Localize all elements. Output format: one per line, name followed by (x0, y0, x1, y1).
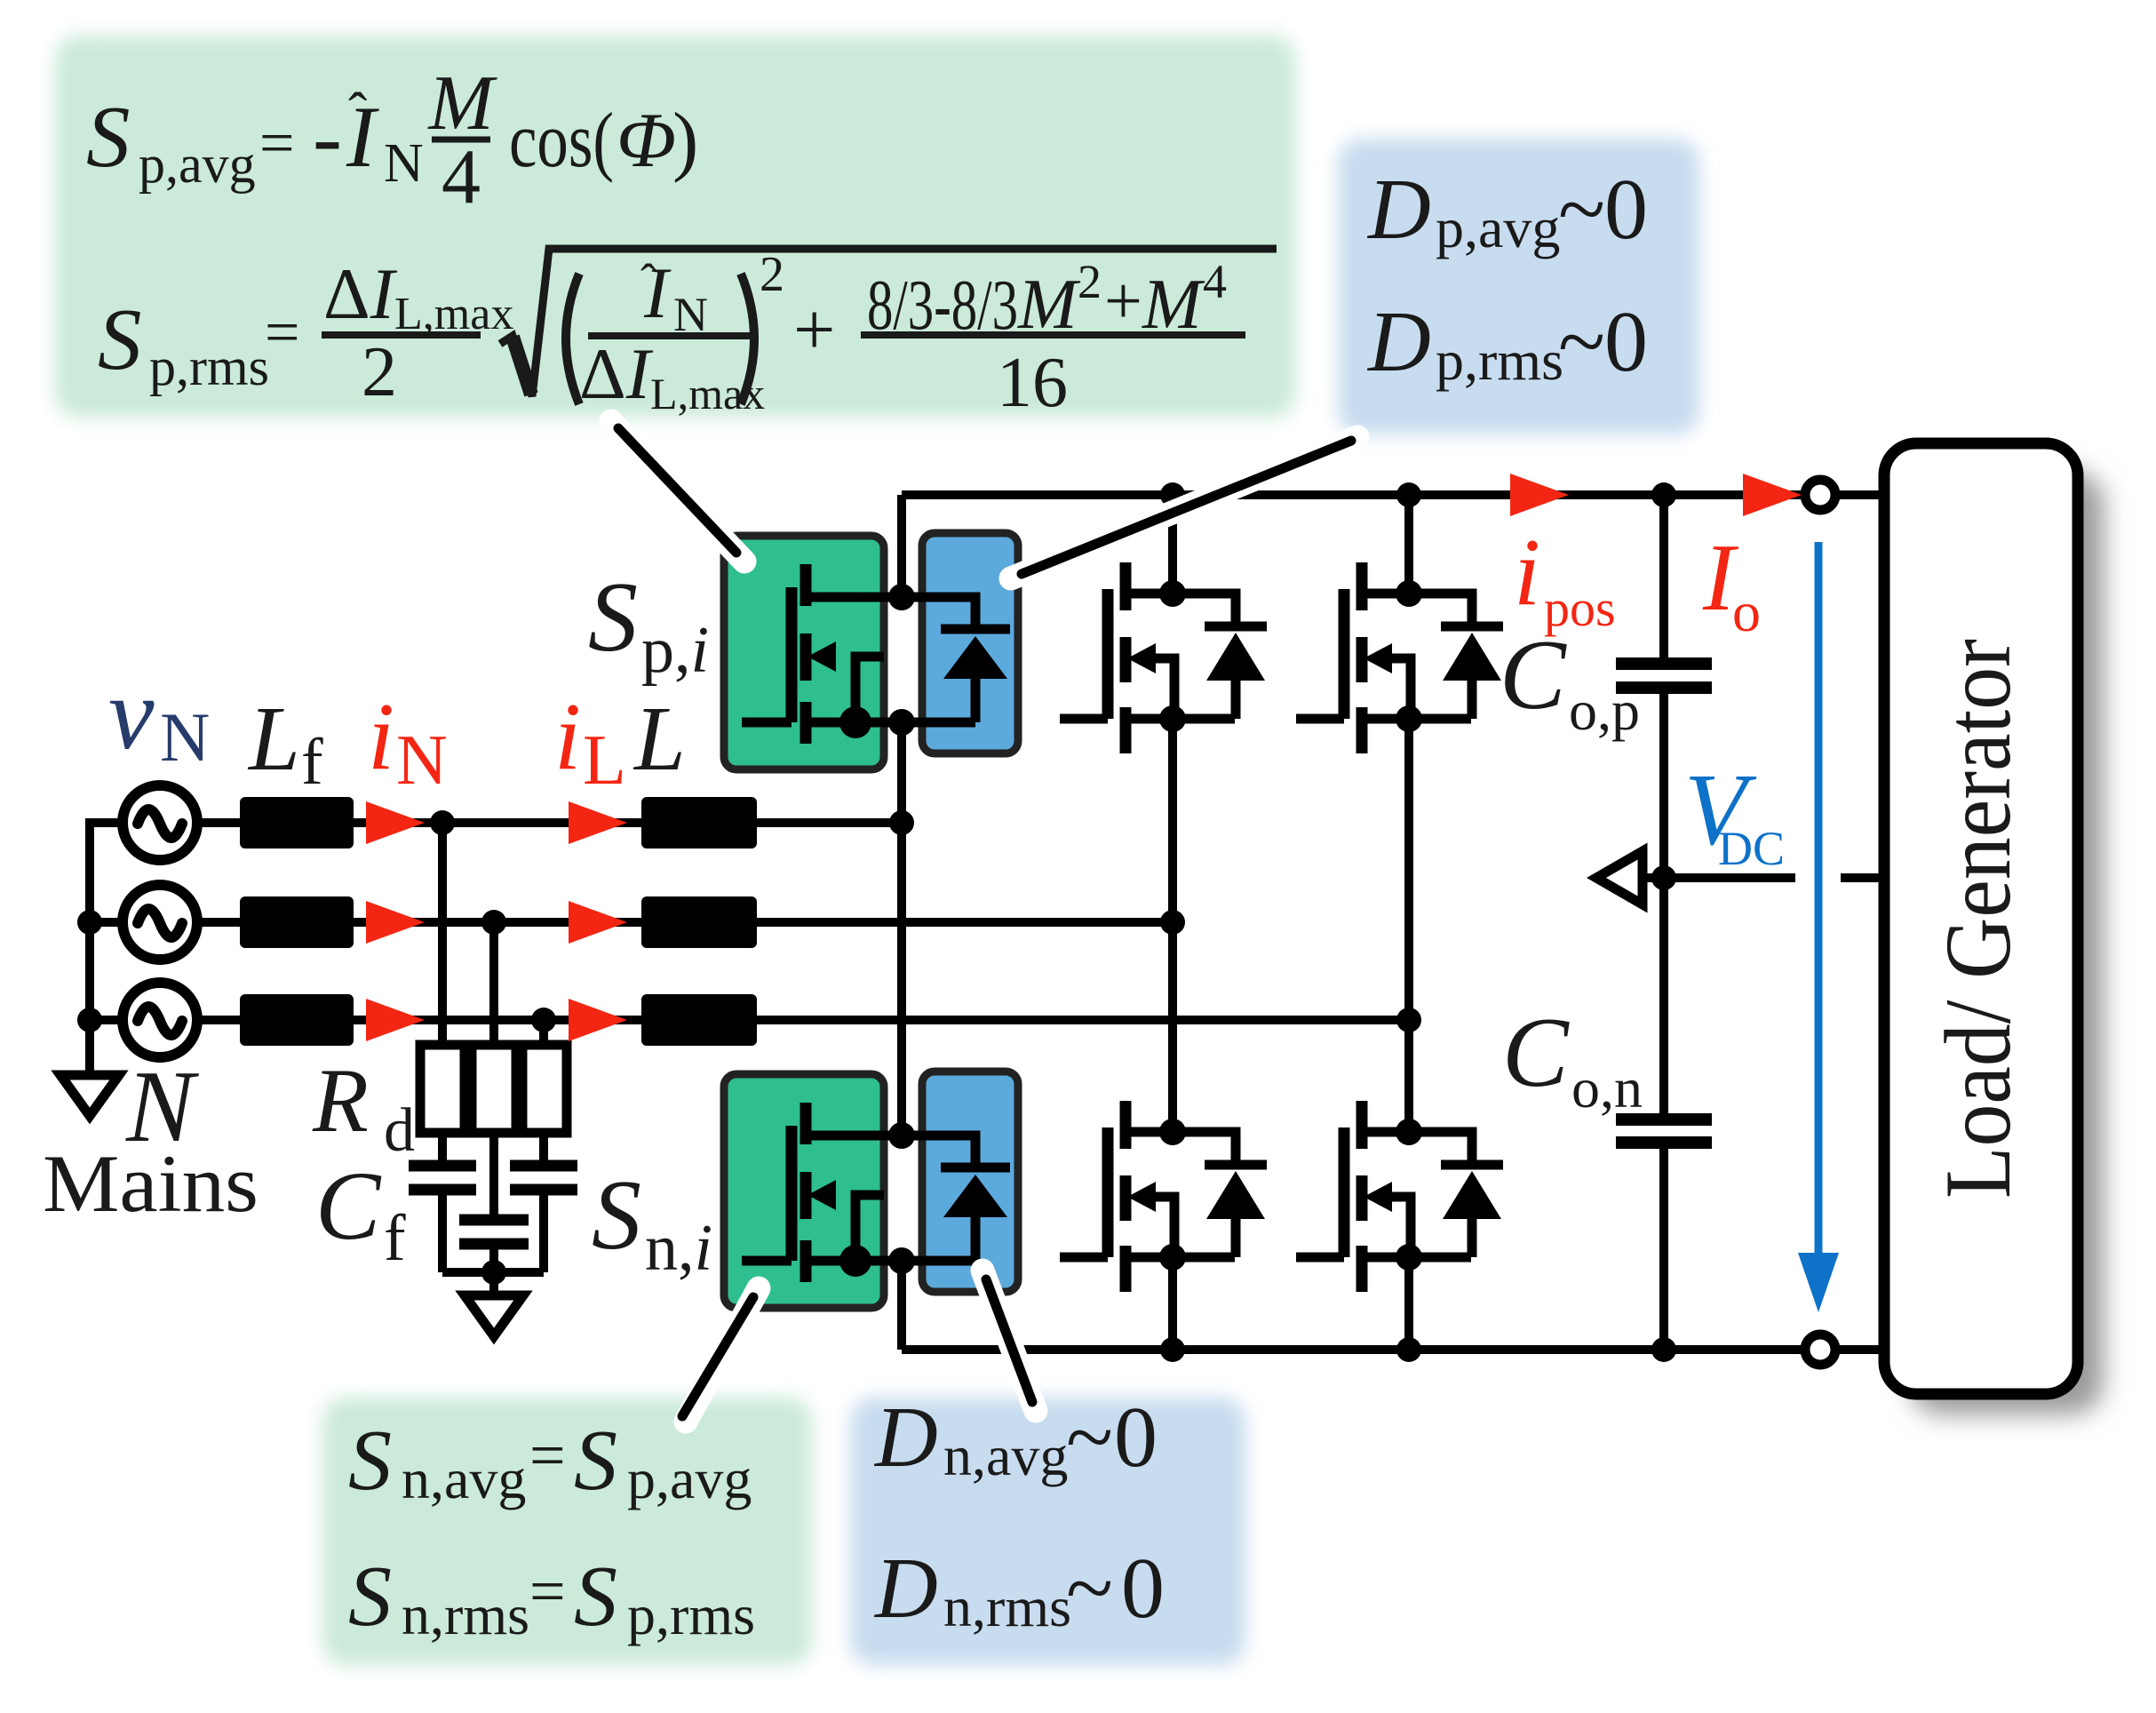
wire top rail (902, 490, 1805, 499)
svg-text:N: N (160, 698, 210, 776)
svg-text:+: + (1104, 264, 1142, 339)
formula S_n,avg = S_p,avg (348, 1413, 752, 1510)
svg-text:C: C (315, 1151, 382, 1260)
svg-text:n,rms: n,rms (402, 1583, 529, 1646)
svg-text:o,p: o,p (1569, 679, 1640, 742)
svg-text:p,rms: p,rms (627, 1583, 755, 1646)
terminal negative (1805, 1335, 1835, 1365)
svg-text:~: ~ (1066, 1541, 1113, 1637)
svg-text:S: S (98, 291, 142, 388)
svg-text:): ) (672, 98, 698, 184)
svg-text:p,rms: p,rms (1436, 329, 1563, 392)
arrow i_N c (366, 999, 425, 1041)
resistor R_d 2 (472, 1045, 516, 1133)
svg-text:v: v (108, 657, 155, 771)
svg-text:0: 0 (1604, 162, 1648, 258)
wire leg 3 vertical (1404, 495, 1413, 1350)
svg-text:0: 0 (1114, 1390, 1158, 1486)
svg-text:o: o (1732, 580, 1761, 643)
svg-text:i: i (368, 684, 394, 790)
wire phase c (195, 1016, 1409, 1024)
formula box S_p,avg / S_p,rms (green) (55, 36, 1295, 418)
svg-text:2: 2 (362, 333, 397, 411)
wire bottom rail (902, 1345, 1805, 1354)
wire DC midpoint (1641, 873, 1888, 882)
arrow i_L a (569, 801, 627, 844)
inductor L phase b (641, 896, 757, 948)
svg-text:4: 4 (442, 134, 481, 220)
svg-text:S: S (574, 1413, 617, 1509)
svg-text:R: R (312, 1050, 369, 1151)
source v_N phase a (123, 785, 197, 860)
svg-text:Mains: Mains (43, 1138, 259, 1229)
wire filter star bus (442, 1272, 544, 1295)
svg-text:S: S (574, 1549, 617, 1645)
capacitor C_o,n (1616, 1119, 1712, 1143)
svg-text:n,i: n,i (645, 1212, 712, 1285)
ground filter (465, 1295, 523, 1336)
transistor S_p,i with diode D_p (highlighted) (724, 533, 1018, 769)
svg-text:N: N (396, 721, 448, 800)
svg-text:D: D (873, 1390, 938, 1486)
capacitor C_f 3 (510, 1166, 577, 1190)
svg-text:S: S (592, 1160, 641, 1271)
svg-text:16: 16 (997, 344, 1068, 422)
svg-text:d: d (384, 1096, 415, 1165)
formula D_p,avg ~ 0 (1366, 162, 1648, 259)
svg-text:p,avg: p,avg (139, 135, 256, 194)
node phase c junction (531, 1008, 556, 1032)
transistor leg2 top with diode (1060, 562, 1267, 753)
svg-text:D: D (1366, 294, 1431, 390)
svg-text:D: D (873, 1541, 938, 1637)
node top rail cap (1651, 482, 1676, 507)
svg-text:0: 0 (1121, 1541, 1165, 1637)
node neutral c (77, 1008, 102, 1032)
svg-text:+: + (793, 289, 835, 371)
wire damper branch 2 (489, 922, 498, 1272)
svg-text:0: 0 (1604, 294, 1648, 390)
svg-text:i: i (1514, 520, 1540, 625)
source v_N phase c (123, 983, 197, 1057)
load box (1884, 443, 2104, 1414)
capacitor C_f 2 (459, 1220, 529, 1244)
svg-text:p,rms: p,rms (149, 338, 269, 396)
wire mains neutral bus (90, 823, 124, 1075)
node bottom rail leg2 (1160, 1337, 1185, 1362)
svg-text:C: C (1502, 998, 1570, 1108)
formula D_p,rms ~ 0 (1366, 294, 1648, 392)
svg-text:n,avg: n,avg (943, 1424, 1068, 1487)
svg-text:Φ: Φ (617, 98, 676, 184)
source v_N phase b (123, 885, 197, 960)
label box D_n (blue) (850, 1398, 1245, 1665)
svg-text:n,rms: n,rms (943, 1575, 1071, 1638)
capacitor C_f 1 (409, 1166, 476, 1190)
formula D_n,rms ~ 0 (873, 1541, 1165, 1638)
svg-text:L: L (632, 688, 686, 790)
wire leg 2 vertical (1168, 495, 1177, 1350)
svg-text:DC: DC (1718, 822, 1785, 875)
wire phase b (195, 918, 1173, 927)
formula S_p,avg = -I_N M/4 cos(Phi) (86, 60, 698, 220)
callout to S_p,i (611, 421, 744, 562)
wire top rail to load (1835, 490, 1888, 499)
node phase b junction (481, 910, 506, 935)
svg-text:ˆ: ˆ (640, 254, 656, 307)
arrow midpoint (1596, 851, 1643, 904)
svg-text:n,avg: n,avg (402, 1447, 526, 1510)
svg-text:2: 2 (760, 247, 784, 302)
formula S_n,rms = S_p,rms (348, 1549, 755, 1646)
wire bottom rail to load (1835, 1345, 1888, 1354)
callout to D_p (1011, 437, 1357, 578)
arrow V_DC (1798, 542, 1839, 1312)
terminal positive (1805, 480, 1835, 510)
svg-text:=: = (529, 1420, 566, 1491)
wire C_o,n leads (1659, 878, 1668, 1350)
svg-text:o,n: o,n (1571, 1056, 1643, 1119)
node DC midpoint (1651, 865, 1676, 890)
svg-text:2: 2 (1078, 255, 1102, 308)
svg-text:S: S (588, 562, 638, 673)
wire damper branch 1 (438, 823, 447, 1272)
wire leg 1 vertical (897, 495, 906, 1350)
arrow I_o (1743, 474, 1802, 516)
svg-text:Load/ Generator: Load/ Generator (1926, 639, 2030, 1199)
wire phase a (195, 818, 902, 827)
callout to D_n (983, 1271, 1036, 1411)
svg-text:~: ~ (1558, 294, 1605, 390)
arrow i_L c (569, 999, 627, 1041)
svg-text:f: f (301, 726, 323, 799)
svg-text:N: N (384, 133, 424, 194)
svg-text:-: - (313, 89, 342, 186)
capacitor C_o,p (1616, 664, 1712, 688)
node leg3 phase tap (1396, 1008, 1421, 1032)
svg-text:S: S (348, 1549, 392, 1645)
svg-text:=: = (265, 299, 299, 367)
label box D_p (blue) (1338, 139, 1699, 434)
arrow i_pos (1510, 474, 1569, 516)
svg-text:ˆ: ˆ (348, 81, 367, 144)
svg-text:=: = (529, 1556, 566, 1627)
node neutral b (77, 910, 102, 935)
node filter star (481, 1260, 506, 1285)
svg-text:C: C (1500, 620, 1567, 730)
wire damper branch 3 (539, 1020, 548, 1272)
svg-text:i: i (554, 684, 581, 790)
resistor R_d 3 (522, 1045, 567, 1133)
node leg2 phase tap (1160, 910, 1185, 935)
transistor S_n,i with diode D_n (highlighted) (724, 1072, 1018, 1308)
transistor leg3 bottom with diode (1296, 1101, 1503, 1292)
node bottom rail leg3 (1396, 1337, 1421, 1362)
transistor leg2 bottom with diode (1060, 1101, 1267, 1292)
wire C_o,p leads (1659, 495, 1668, 878)
node phase a junction (430, 810, 455, 835)
svg-text:f: f (384, 1202, 406, 1275)
formula D_n,avg ~ 0 (873, 1390, 1158, 1487)
svg-text:p,avg: p,avg (1436, 196, 1560, 259)
arrow i_N a (366, 801, 425, 844)
ground mains (60, 1075, 119, 1116)
svg-text:D: D (1366, 162, 1431, 258)
svg-text:L: L (247, 688, 300, 790)
svg-text:~: ~ (1066, 1390, 1113, 1486)
arrow i_N b (366, 901, 425, 944)
label box S_n (green) (322, 1398, 812, 1665)
inductor L_f phase b (240, 896, 354, 948)
formula S_p,rms = ... (98, 247, 1277, 422)
transistor leg3 top with diode (1296, 562, 1503, 753)
resistor R_d 1 (420, 1045, 465, 1133)
svg-text:p,i: p,i (641, 614, 709, 687)
svg-text:cos(: cos( (509, 98, 614, 184)
svg-text:S: S (86, 89, 131, 186)
svg-text:=: = (259, 109, 294, 178)
svg-text:S: S (348, 1413, 392, 1509)
node top rail leg2 (1160, 482, 1185, 507)
svg-text:~: ~ (1558, 162, 1605, 258)
node leg1 phase tap (889, 810, 914, 835)
inductor L_f phase a (240, 797, 354, 849)
node bottom rail cap (1651, 1337, 1676, 1362)
svg-text:4: 4 (1203, 255, 1227, 308)
svg-text:p,avg: p,avg (627, 1447, 752, 1510)
callout to S_n,i (682, 1288, 759, 1422)
inductor L phase c (641, 994, 757, 1046)
arrow i_L b (569, 901, 627, 944)
inductor L phase a (641, 797, 757, 849)
inductor L_f phase c (240, 994, 354, 1046)
svg-text:L: L (583, 721, 626, 800)
node top rail leg3 (1396, 482, 1421, 507)
